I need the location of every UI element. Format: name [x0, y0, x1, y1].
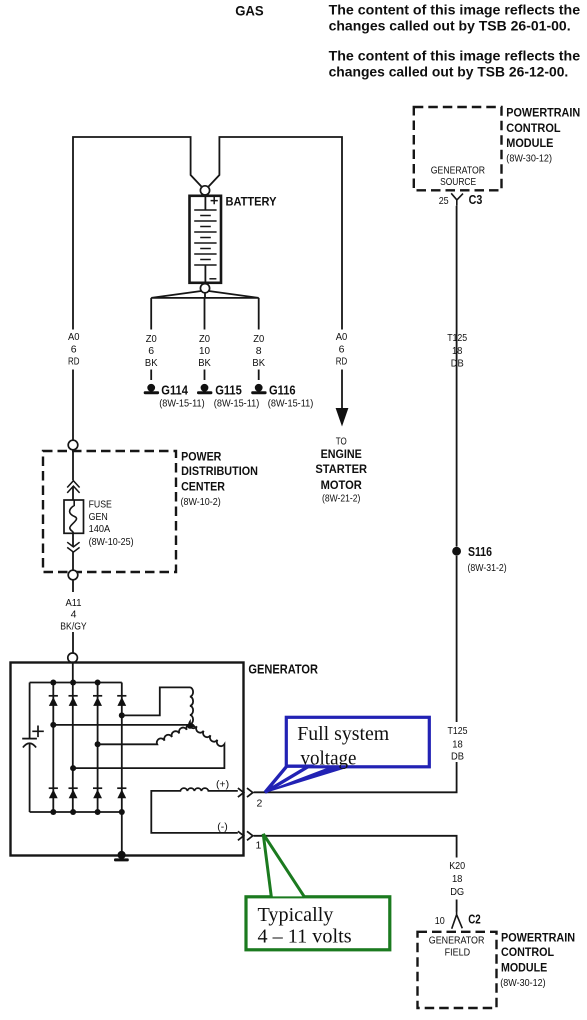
wire rectifier col3 — [97, 683, 99, 813]
svg-text:CENTER: CENTER — [181, 481, 225, 493]
capacitor C1 branch — [29, 683, 31, 739]
connector PDC bottom — [68, 570, 78, 580]
svg-text:GAS: GAS — [235, 4, 264, 19]
svg-text:voltage: voltage — [301, 747, 357, 769]
svg-text:18: 18 — [452, 873, 463, 885]
capacitor C1 — [22, 726, 44, 748]
svg-text:GENERATOR: GENERATOR — [431, 165, 486, 177]
svg-text:(8W-15-11): (8W-15-11) — [159, 397, 205, 409]
svg-text:STARTER: STARTER — [315, 464, 367, 476]
terminal pin 2 chevrons — [238, 788, 253, 797]
svg-text:Z0: Z0 — [146, 333, 157, 345]
svg-text:(8W-31-2): (8W-31-2) — [468, 562, 507, 574]
svg-text:The content of this image refl: The content of this image reflects the — [329, 48, 580, 63]
junction dot col4 stator tap — [119, 712, 125, 718]
generator box — [11, 663, 244, 856]
powertrain control module box (top) — [414, 107, 502, 190]
svg-text:6: 6 — [148, 345, 154, 357]
diode D8 — [117, 788, 126, 798]
svg-text:18: 18 — [452, 345, 463, 357]
svg-text:1: 1 — [256, 840, 262, 852]
svg-text:DG: DG — [450, 886, 464, 898]
svg-text:S116: S116 — [468, 545, 492, 559]
svg-text:2: 2 — [257, 798, 263, 810]
svg-text:BK: BK — [198, 357, 211, 369]
svg-text:A0: A0 — [336, 331, 348, 343]
svg-text:RD: RD — [68, 356, 80, 368]
svg-text:8: 8 — [256, 345, 262, 357]
callout tail blue right — [265, 766, 350, 792]
wire K20 lower — [456, 900, 458, 912]
svg-text:POWERTRAIN: POWERTRAIN — [506, 108, 580, 120]
svg-text:BK: BK — [145, 357, 158, 369]
stator winding L1 (from col4) — [122, 687, 193, 726]
connector chevrons upper — [67, 481, 79, 493]
svg-text:(+): (+) — [216, 778, 229, 790]
connector generator input — [68, 653, 78, 663]
wire Z0 ground leg 2 — [204, 298, 206, 380]
wire Z0 ground leg 1 — [150, 298, 152, 380]
callout tail green — [263, 834, 305, 897]
diode D1 — [49, 696, 58, 706]
svg-text:4: 4 — [71, 609, 77, 621]
svg-text:6: 6 — [71, 343, 77, 355]
wire rectifier col1 — [52, 683, 54, 813]
svg-text:DB: DB — [451, 358, 464, 370]
svg-text:FIELD: FIELD — [445, 946, 471, 958]
svg-text:TO: TO — [336, 435, 347, 447]
splice S116 — [452, 547, 461, 556]
wire rectifier bottom rail — [30, 811, 122, 813]
wire battery negative fanout — [151, 291, 259, 298]
svg-text:changes called out by TSB 26-0: changes called out by TSB 26-01-00. — [329, 18, 571, 33]
svg-text:MODULE: MODULE — [501, 963, 547, 975]
svg-text:6: 6 — [339, 343, 345, 355]
svg-text:(8W-21-2): (8W-21-2) — [322, 493, 360, 505]
svg-text:Typically: Typically — [258, 904, 335, 926]
svg-text:CONTROL: CONTROL — [501, 947, 554, 959]
svg-text:MOTOR: MOTOR — [321, 480, 363, 492]
wire A0 battery+ to starter (right branch) — [209, 137, 342, 330]
svg-text:(8W-10-25): (8W-10-25) — [89, 536, 134, 548]
wire generator pin1 to K20 — [254, 836, 457, 858]
wire generator internal supply (col2) — [72, 663, 74, 813]
wire generator pin2 to T125 — [254, 762, 457, 792]
connector chevrons lower — [67, 542, 79, 552]
wire inside PDC upper — [72, 450, 74, 481]
svg-text:T125: T125 — [448, 725, 468, 737]
callout box Typically 4-11 volts — [246, 897, 390, 950]
svg-text:A11: A11 — [65, 597, 81, 609]
callout box Full system voltage — [286, 717, 429, 767]
svg-text:(8W-30-12): (8W-30-12) — [500, 977, 545, 989]
svg-text:POWER: POWER — [181, 452, 222, 464]
diode D7 — [93, 788, 102, 798]
connector C2 — [452, 911, 463, 929]
wire A11 — [72, 580, 74, 654]
fuse GEN 140A — [64, 500, 84, 533]
svg-text:DISTRIBUTION: DISTRIBUTION — [181, 466, 258, 478]
ground G115 — [197, 384, 212, 394]
rotor field winding and loop — [151, 788, 238, 833]
wire col1 to wye center — [53, 724, 188, 726]
wire rectifier top rail — [30, 682, 122, 684]
diode D6 — [69, 788, 78, 798]
svg-text:(8W-15-11): (8W-15-11) — [268, 397, 314, 409]
svg-text:GENERATOR: GENERATOR — [429, 935, 485, 947]
svg-text:10: 10 — [435, 915, 445, 927]
svg-text:RD: RD — [336, 356, 348, 368]
junction dots top rail — [50, 680, 56, 686]
junction dot col1 stator tap — [50, 722, 56, 728]
svg-text:G116: G116 — [269, 383, 296, 397]
wire rectifier col4 — [121, 683, 123, 813]
svg-text:SOURCE: SOURCE — [440, 176, 476, 188]
junction dot wye center — [187, 723, 193, 729]
svg-text:A0: A0 — [68, 331, 80, 343]
svg-text:DB: DB — [451, 751, 464, 763]
svg-text:G115: G115 — [215, 383, 242, 397]
svg-text:4 – 11 volts: 4 – 11 volts — [258, 925, 352, 947]
svg-text:Z0: Z0 — [253, 333, 264, 345]
svg-text:Full system: Full system — [297, 723, 389, 745]
svg-text:18: 18 — [452, 738, 463, 750]
connector battery negative — [200, 284, 209, 293]
diode D5 — [49, 788, 58, 798]
svg-text:FUSE: FUSE — [89, 498, 112, 510]
diode D4 — [117, 696, 126, 706]
svg-text:(8W-30-12): (8W-30-12) — [506, 153, 552, 165]
wire col4 to case ground — [121, 812, 123, 852]
svg-text:(8W-15-11): (8W-15-11) — [214, 397, 259, 409]
powertrain control module box (bottom) — [418, 932, 497, 1008]
connector C3 — [451, 193, 463, 206]
svg-text:K20: K20 — [449, 860, 465, 872]
svg-text:BATTERY: BATTERY — [226, 197, 277, 209]
svg-text:(-): (-) — [217, 821, 228, 833]
svg-text:T125: T125 — [447, 332, 467, 344]
junction dot col3 stator tap — [95, 741, 101, 747]
svg-text:BK: BK — [252, 357, 265, 369]
stator winding L2 (from col3) — [98, 724, 195, 744]
svg-text:GEN: GEN — [89, 511, 108, 523]
svg-text:G114: G114 — [161, 383, 188, 397]
junction dot col2 stator tap — [70, 765, 76, 771]
ground G116 — [251, 384, 266, 394]
svg-text:25: 25 — [439, 195, 449, 207]
ground G114 — [144, 384, 159, 394]
diode D3 — [93, 696, 102, 706]
svg-text:C3: C3 — [469, 193, 483, 207]
svg-text:ENGINE: ENGINE — [321, 449, 363, 461]
svg-text:changes called out by TSB 26-1: changes called out by TSB 26-12-00. — [329, 64, 569, 79]
svg-text:The content of this image refl: The content of this image reflects the — [329, 3, 580, 18]
svg-text:POWERTRAIN: POWERTRAIN — [501, 932, 575, 944]
svg-text:10: 10 — [199, 345, 210, 357]
svg-text:(8W-10-2): (8W-10-2) — [181, 496, 221, 508]
svg-text:GENERATOR: GENERATOR — [248, 662, 318, 677]
connector PDC top — [68, 440, 78, 450]
power distribution center box — [43, 451, 176, 572]
wire inside PDC lower — [72, 533, 74, 546]
connector battery positive — [200, 186, 209, 195]
battery B1 — [190, 196, 222, 283]
diode D2 — [69, 696, 78, 706]
callout tail blue left — [265, 766, 309, 792]
svg-text:C2: C2 — [468, 913, 481, 927]
svg-text:CONTROL: CONTROL — [506, 123, 560, 135]
svg-text:140A: 140A — [89, 523, 111, 535]
wire T125 upper — [456, 206, 458, 722]
wire Z0 ground leg 3 — [258, 298, 260, 380]
case ground — [114, 851, 129, 862]
wire A0 battery+ to PDC (left branch) — [73, 137, 201, 330]
arrow to engine starter motor — [336, 408, 349, 427]
svg-text:Z0: Z0 — [199, 333, 210, 345]
stator winding L3 (from col2) — [73, 722, 224, 768]
wire A0 below labels to arrow — [341, 370, 343, 410]
junction dots bottom rail — [50, 809, 56, 815]
terminal pin 1 chevrons — [238, 831, 253, 840]
svg-text:BK/GY: BK/GY — [60, 621, 86, 633]
svg-text:MODULE: MODULE — [506, 138, 553, 150]
